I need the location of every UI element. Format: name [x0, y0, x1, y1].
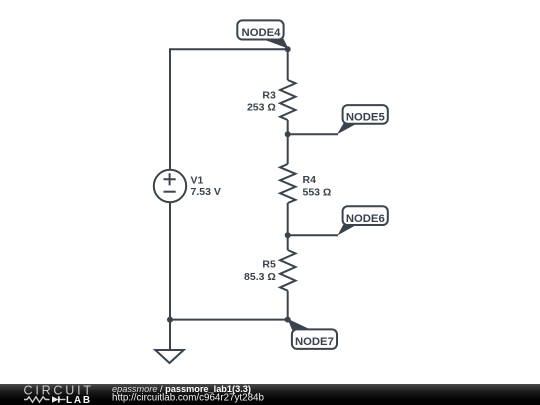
wire R4 to node6	[287, 203, 289, 250]
junction node6	[285, 232, 291, 238]
footer bar	[0, 384, 540, 405]
svg-text:85.3 Ω: 85.3 Ω	[244, 271, 276, 283]
svg-text:LAB: LAB	[66, 395, 92, 405]
junction node5	[285, 131, 291, 137]
label V1 value	[191, 175, 221, 199]
wire R5 to node7	[287, 291, 289, 320]
label R3 value	[247, 89, 276, 113]
resistor R5	[280, 250, 295, 291]
wire node5 stub	[288, 133, 338, 135]
wire bottom (node7 net)	[170, 319, 288, 321]
svg-text:553 Ω: 553 Ω	[303, 186, 332, 198]
wire top (node4 net)	[170, 48, 288, 50]
wire R3 to node5	[287, 120, 289, 164]
svg-text:NODE5: NODE5	[346, 112, 385, 124]
node NODE4 flag	[237, 20, 288, 48]
wire node6 stub	[288, 234, 338, 236]
svg-text:NODE7: NODE7	[295, 336, 334, 348]
resistor R3	[280, 80, 295, 120]
node NODE6 flag	[338, 206, 388, 235]
svg-text:http://circuitlab.com/c964r27y: http://circuitlab.com/c964r27yt284b	[112, 393, 264, 404]
wire left lower (V1 minus to ground net)	[169, 203, 171, 351]
junction node4	[285, 46, 291, 52]
svg-text:V1: V1	[191, 175, 204, 187]
resistor R4	[280, 164, 295, 203]
svg-text:R5: R5	[262, 258, 276, 270]
label R4 value	[303, 174, 332, 198]
node NODE7 flag	[287, 319, 337, 349]
svg-text:253 Ω: 253 Ω	[247, 102, 276, 114]
svg-text:NODE4: NODE4	[242, 27, 282, 39]
wire left upper (top to V1 plus)	[169, 48, 171, 169]
junction left-bottom	[167, 317, 173, 323]
wire right segment node4 to R3	[287, 49, 289, 80]
footer logo CIRCUIT LAB	[24, 384, 94, 405]
svg-text:R4: R4	[303, 174, 317, 186]
label R5 value	[244, 258, 276, 282]
node NODE5 flag	[337, 105, 388, 134]
svg-text:NODE6: NODE6	[346, 213, 385, 225]
footer text	[112, 384, 264, 404]
svg-text:R3: R3	[262, 89, 276, 101]
voltage source V1	[154, 170, 186, 202]
svg-text:7.53 V: 7.53 V	[191, 186, 221, 198]
ground	[155, 350, 183, 363]
junction node7	[285, 317, 291, 323]
